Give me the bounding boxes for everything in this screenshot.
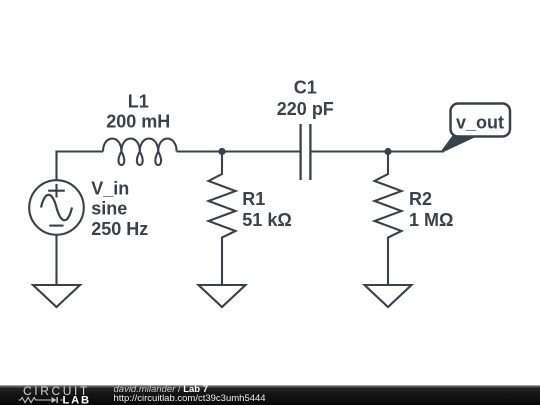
svg-text:1 MΩ: 1 MΩ xyxy=(409,210,453,230)
svg-text:C1: C1 xyxy=(294,78,317,98)
wire V_in bottom to ground xyxy=(55,235,57,286)
ground symbol under R2 xyxy=(365,285,412,307)
svg-text:R1: R1 xyxy=(242,189,265,209)
svg-text:250 Hz: 250 Hz xyxy=(91,219,148,239)
svg-text:L1: L1 xyxy=(128,91,149,111)
footer bar xyxy=(0,385,540,405)
V_in plus sign xyxy=(48,184,65,198)
resistor R2 xyxy=(375,152,402,287)
wire L1 to node A to C1 left plate xyxy=(177,150,300,152)
v_out flag pointer tail xyxy=(442,136,477,153)
wire V_in top to L1 xyxy=(57,152,104,181)
ground symbol under V_in xyxy=(33,285,80,307)
svg-text:200 mH: 200 mH xyxy=(106,112,170,132)
svg-text:sine: sine xyxy=(91,199,127,219)
capacitor C1 right plate xyxy=(309,124,311,180)
voltage source V_in circle xyxy=(29,180,84,235)
svg-text:V_in: V_in xyxy=(91,179,129,199)
V_in minus sign xyxy=(49,225,63,227)
wire C1 right plate to node B to v_out tail xyxy=(312,150,445,152)
footer attribution text xyxy=(114,386,266,403)
capacitor C1 left plate xyxy=(299,124,301,180)
v_out flag box xyxy=(451,104,511,137)
svg-text:51 kΩ: 51 kΩ xyxy=(242,210,291,230)
resistor R1 xyxy=(209,152,236,287)
V_in sine waveform xyxy=(41,195,72,221)
CircuitLab logo xyxy=(0,385,110,405)
ground symbol under R1 xyxy=(199,285,246,307)
node A junction dot xyxy=(218,148,225,155)
node B junction dot xyxy=(384,148,391,155)
svg-text:LAB: LAB xyxy=(63,394,91,405)
svg-text:v_out: v_out xyxy=(456,112,504,132)
svg-text:220 pF: 220 pF xyxy=(277,99,334,119)
svg-text:R2: R2 xyxy=(409,189,432,209)
inductor L1 xyxy=(103,139,177,165)
